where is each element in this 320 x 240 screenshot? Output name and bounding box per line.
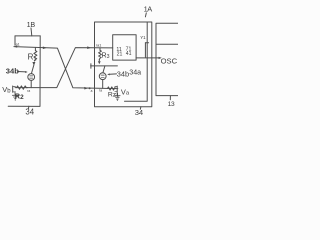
svg-text:Rz1: Rz1 [108, 91, 119, 99]
svg-text:34b: 34b [117, 69, 129, 78]
svg-text:a: a [91, 89, 93, 93]
svg-text:Y1: Y1 [140, 35, 146, 40]
svg-text:34b: 34b [6, 67, 19, 76]
svg-text:34: 34 [135, 108, 143, 117]
svg-text:1B: 1B [27, 20, 36, 29]
svg-text:R2: R2 [15, 92, 24, 101]
svg-text:1A: 1A [144, 5, 153, 14]
svg-text:Vb: Vb [2, 85, 11, 95]
svg-text:R3: R3 [102, 53, 110, 61]
svg-text:OSC: OSC [161, 56, 178, 65]
svg-text:41: 41 [126, 51, 132, 57]
svg-text:la: la [99, 89, 102, 93]
svg-text:ia1: ia1 [15, 42, 20, 46]
svg-text:13: 13 [168, 101, 175, 108]
svg-text:21: 21 [117, 52, 123, 58]
svg-text:ra: ra [27, 89, 30, 93]
svg-text:34a: 34a [129, 69, 141, 77]
svg-text:34: 34 [25, 107, 34, 116]
svg-text:ia1: ia1 [96, 44, 101, 48]
svg-text:Va: Va [121, 87, 130, 96]
